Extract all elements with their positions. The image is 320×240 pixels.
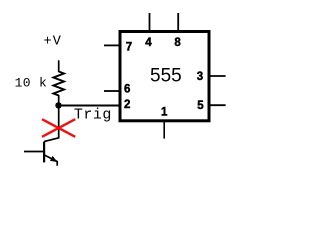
pin 8 stub (177, 13, 179, 31)
svg-text:10 k: 10 k (15, 75, 48, 90)
svg-text:3: 3 (197, 71, 203, 83)
wire +V to resistor (58, 60, 60, 72)
transistor Q1 emitter (44, 155, 57, 162)
pin 1 stub (163, 122, 165, 139)
pin 5 stub (209, 104, 226, 106)
junction node dot (55, 102, 61, 108)
svg-text:2: 2 (124, 99, 130, 111)
pin 7 stub (104, 44, 120, 46)
svg-text:1: 1 (161, 107, 168, 119)
wire junction down to transistor (44, 105, 59, 141)
pin 6 stub (104, 90, 120, 92)
svg-text:8: 8 (174, 37, 181, 49)
svg-text:7: 7 (126, 41, 132, 53)
pin 4 stub (149, 13, 151, 31)
wire resistor to junction (58, 95, 60, 106)
wire junction to pin 2 (59, 105, 121, 107)
svg-text:5: 5 (197, 100, 204, 112)
transistor Q1 base lead (24, 151, 44, 153)
red X deletion mark (42, 119, 75, 137)
svg-text:4: 4 (145, 37, 152, 49)
svg-text:+V: +V (44, 34, 63, 49)
svg-text:555: 555 (150, 65, 182, 86)
IC U1 555 body (120, 32, 209, 121)
transistor Q1 emitter arrowhead (50, 156, 57, 162)
svg-text:Trig: Trig (74, 107, 112, 124)
svg-text:6: 6 (124, 84, 130, 96)
transistor Q1 base bar (43, 142, 45, 163)
transistor Q1 emitter lead down (56, 161, 58, 166)
pin 3 stub (209, 75, 226, 77)
resistor R1 zigzag (54, 72, 64, 96)
